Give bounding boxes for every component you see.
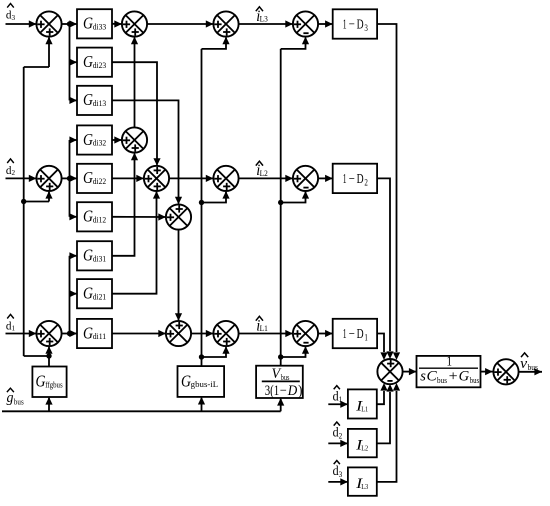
svg-text:ffgbus: ffgbus — [45, 379, 63, 389]
svg-text:di12: di12 — [93, 214, 107, 224]
svg-text:1: 1 — [343, 327, 347, 342]
svg-text:L3: L3 — [260, 13, 268, 23]
svg-text:D: D — [287, 383, 298, 399]
svg-text:di11: di11 — [93, 331, 107, 341]
svg-text:G: G — [83, 90, 93, 109]
svg-text:D: D — [357, 17, 364, 32]
svg-text:di22: di22 — [93, 176, 107, 186]
svg-text:): ) — [298, 383, 303, 399]
svg-text:bus: bus — [528, 362, 539, 372]
svg-text:3: 3 — [339, 470, 343, 479]
svg-text:L1: L1 — [361, 404, 368, 413]
svg-text:di23: di23 — [93, 60, 107, 70]
svg-text:L3: L3 — [361, 482, 368, 491]
svg-text:G: G — [83, 14, 93, 33]
svg-text:G: G — [83, 168, 93, 187]
svg-text:bus: bus — [437, 375, 447, 385]
svg-text:1: 1 — [447, 353, 453, 368]
svg-text:s: s — [420, 369, 426, 385]
svg-text:D: D — [357, 327, 364, 342]
svg-text:L1: L1 — [260, 323, 268, 333]
svg-text:3: 3 — [364, 23, 368, 33]
svg-text:G: G — [83, 52, 93, 71]
svg-text:−: − — [280, 383, 287, 399]
svg-text:bus: bus — [14, 397, 24, 407]
svg-text:−: − — [349, 327, 355, 342]
svg-text:1: 1 — [343, 172, 347, 187]
svg-text:g: g — [7, 390, 14, 406]
svg-text:G: G — [83, 130, 93, 149]
svg-text:3(1: 3(1 — [265, 383, 280, 399]
svg-text:G: G — [459, 369, 470, 385]
svg-text:gbus-iL: gbus-iL — [191, 379, 219, 389]
svg-text:G: G — [83, 207, 93, 226]
svg-text:G: G — [36, 372, 46, 391]
svg-text:3: 3 — [12, 13, 16, 22]
svg-text:D: D — [357, 172, 364, 187]
svg-text:G: G — [83, 246, 93, 265]
svg-text:1: 1 — [364, 333, 368, 343]
svg-text:L2: L2 — [361, 443, 368, 452]
svg-text:di31: di31 — [93, 253, 107, 263]
svg-text:di32: di32 — [93, 138, 107, 148]
svg-text:−: − — [349, 17, 355, 32]
svg-text:2: 2 — [364, 178, 368, 188]
svg-text:2: 2 — [12, 168, 16, 177]
svg-text:2: 2 — [339, 431, 343, 440]
svg-text:−: − — [349, 172, 355, 187]
svg-text:L2: L2 — [260, 168, 268, 178]
svg-text:di33: di33 — [93, 21, 107, 31]
svg-text:+: + — [449, 369, 458, 385]
svg-text:G: G — [181, 371, 191, 390]
svg-text:v: v — [520, 356, 527, 372]
svg-text:G: G — [83, 323, 93, 342]
svg-text:1: 1 — [339, 395, 343, 404]
svg-text:1: 1 — [12, 324, 16, 333]
svg-text:G: G — [83, 284, 93, 303]
svg-text:di13: di13 — [93, 98, 107, 108]
svg-text:bus: bus — [470, 375, 479, 385]
svg-text:1: 1 — [343, 17, 347, 32]
svg-text:di21: di21 — [93, 291, 107, 301]
